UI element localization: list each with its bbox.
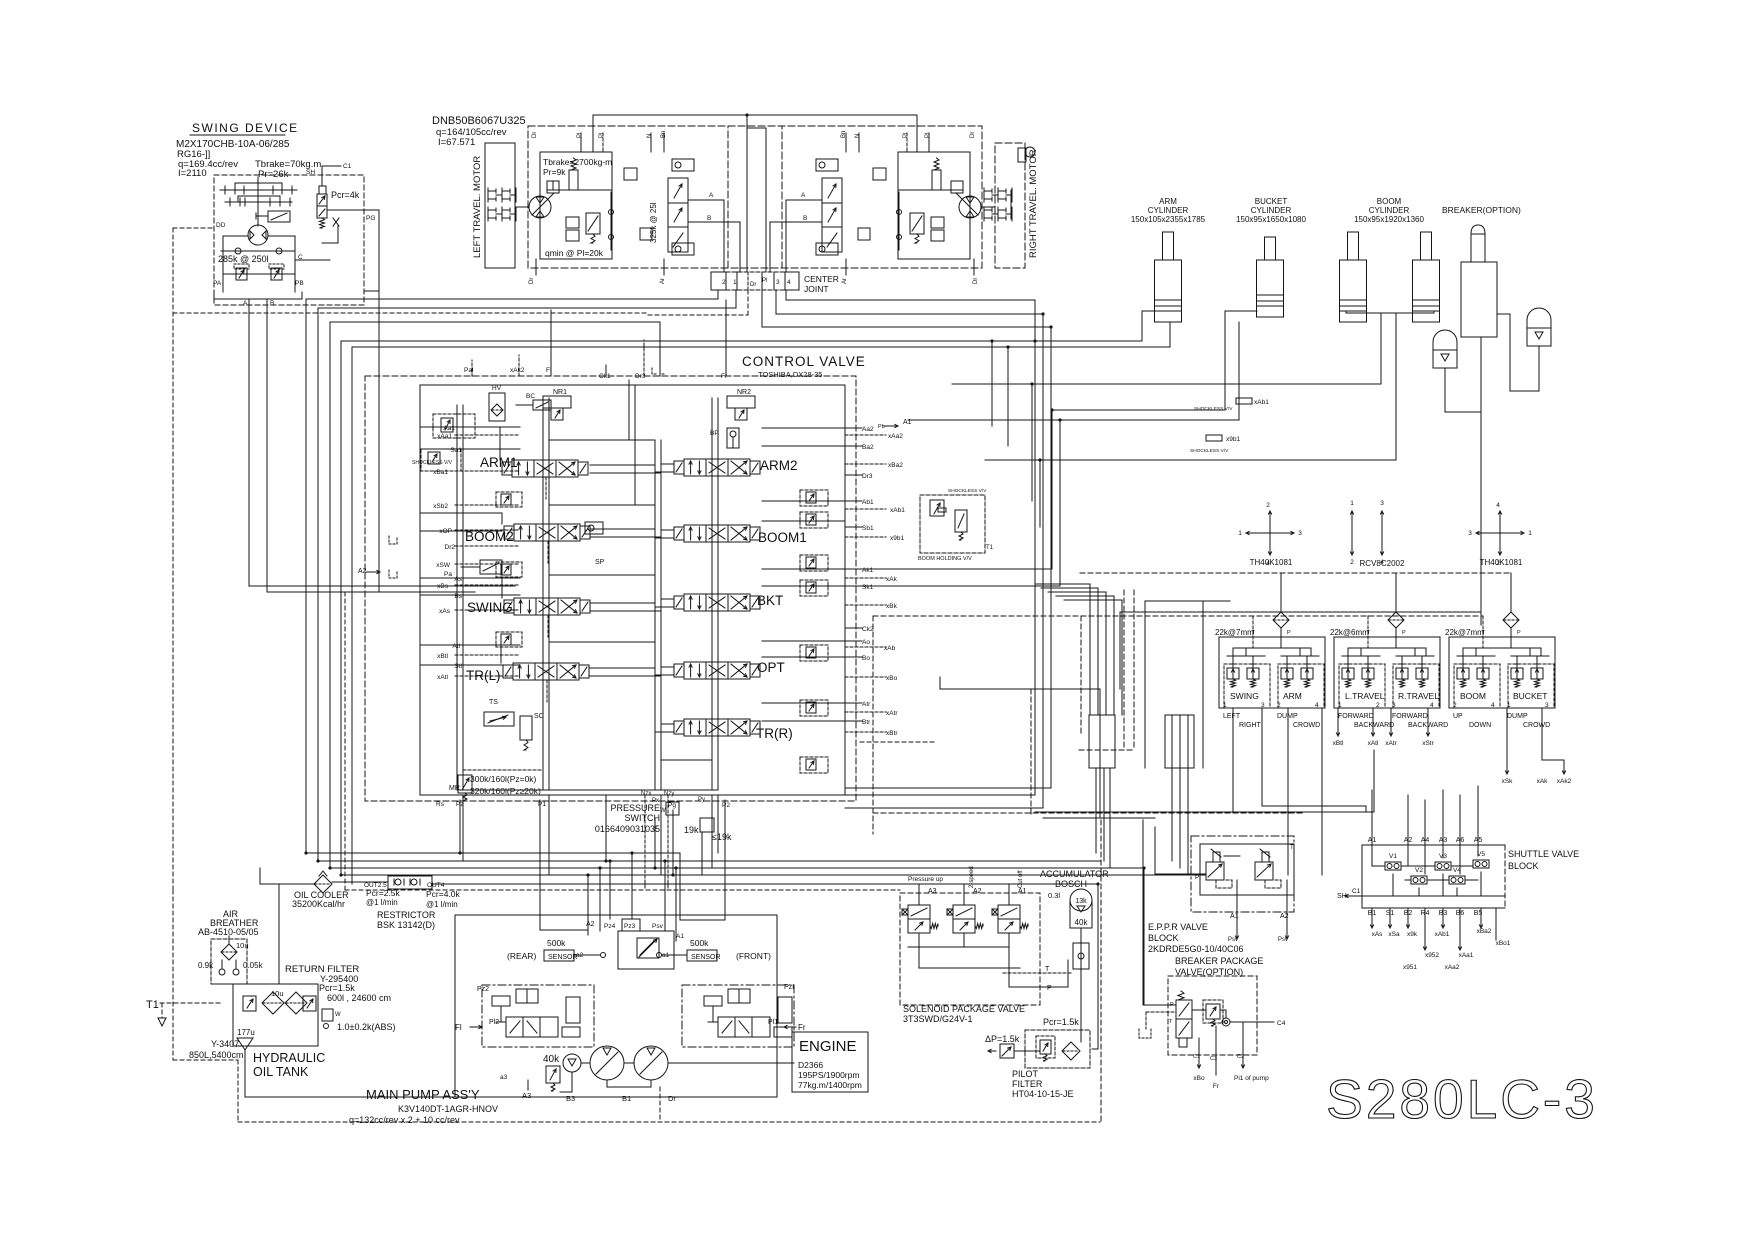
svg-text:BREAKER PACKAGE: BREAKER PACKAGE bbox=[1175, 956, 1263, 966]
rcv filter bbox=[1388, 612, 1404, 628]
breaker outputs bbox=[1198, 1038, 1200, 1055]
svg-text:Ck1: Ck1 bbox=[599, 373, 611, 380]
svg-text:B: B bbox=[270, 300, 274, 307]
svg-text:4: 4 bbox=[1315, 702, 1319, 709]
rcv P riser bbox=[1510, 573, 1512, 612]
relief bottom right bbox=[858, 228, 870, 240]
center joint lines down-right bbox=[761, 290, 763, 327]
arm cylinder bbox=[1163, 232, 1174, 260]
svg-text:CROWD: CROWD bbox=[1523, 722, 1550, 729]
svg-text:xAtl: xAtl bbox=[437, 674, 448, 681]
load check valves left column bbox=[496, 492, 522, 507]
breaker side port line bbox=[1509, 314, 1511, 391]
svg-text:OUT4: OUT4 bbox=[427, 882, 445, 889]
svg-text:77kg.m/1400rpm: 77kg.m/1400rpm bbox=[798, 1080, 862, 1090]
pilot dashed line to control valve bbox=[173, 312, 648, 314]
cooler inlet line bbox=[260, 883, 314, 885]
svg-text:DUMP: DUMP bbox=[1507, 713, 1528, 720]
restrictor output line bbox=[332, 881, 388, 883]
Pz3 box bbox=[622, 919, 640, 931]
svg-text:TH40K1081: TH40K1081 bbox=[1250, 558, 1293, 567]
cv left dashed pilot stubs bbox=[455, 434, 520, 436]
svg-text:(REAR): (REAR) bbox=[507, 951, 536, 961]
pilot filter relief bbox=[1040, 1040, 1051, 1054]
arm cylinder long work-line pair bbox=[341, 340, 1142, 342]
breaker pkg supply vertical bbox=[1143, 868, 1145, 1005]
EPPR block enclosure bbox=[1191, 836, 1294, 912]
svg-text:xSW: xSW bbox=[436, 562, 451, 569]
svg-text:Cut off: Cut off bbox=[1018, 870, 1024, 888]
rcv dashed sub-boxes bbox=[1339, 664, 1385, 708]
svg-text:xAa2: xAa2 bbox=[1445, 964, 1460, 971]
svg-text:LEFT: LEFT bbox=[1223, 713, 1241, 720]
svg-text:Ar: Ar bbox=[660, 278, 666, 284]
svg-text:150x95x1650x1080: 150x95x1650x1080 bbox=[1236, 215, 1306, 224]
svg-text:xAs: xAs bbox=[439, 608, 451, 615]
svg-text:P: P bbox=[1402, 630, 1406, 636]
svg-text:Ba2: Ba2 bbox=[862, 444, 874, 451]
HV valve bbox=[489, 393, 505, 421]
svg-text:Sb1: Sb1 bbox=[862, 525, 874, 532]
motor relief small bbox=[951, 181, 963, 193]
swing brake valve Pcr=4k bbox=[317, 194, 327, 206]
svg-text:P: P bbox=[1517, 630, 1521, 636]
svg-text:B3: B3 bbox=[566, 1094, 575, 1103]
EPPR internal links bbox=[1224, 855, 1240, 857]
misc right dashes bbox=[860, 741, 935, 743]
motor A-B work lines bbox=[688, 199, 724, 201]
svg-text:Atr: Atr bbox=[862, 701, 871, 708]
svg-text:Pz2: Pz2 bbox=[477, 986, 489, 993]
cv right dashed pilot stubs bbox=[845, 434, 886, 436]
svg-text:qmin @ Pl=20k: qmin @ Pl=20k bbox=[545, 248, 604, 258]
svg-text:325k @ 25l: 325k @ 25l bbox=[649, 202, 658, 243]
pilot relief small box upper-left bbox=[433, 414, 475, 438]
arm work-line drops from cv bbox=[991, 341, 993, 426]
svg-text:Bo: Bo bbox=[862, 655, 870, 662]
counterbalance main stack bbox=[668, 178, 688, 252]
svg-text:xSk: xSk bbox=[1502, 778, 1514, 785]
swing motor work loop bbox=[222, 236, 224, 286]
svg-text:ΔP=1.5k: ΔP=1.5k bbox=[985, 1034, 1020, 1044]
svg-text:Atl: Atl bbox=[452, 643, 460, 650]
svg-text:150x105x2355x1785: 150x105x2355x1785 bbox=[1131, 215, 1206, 224]
svg-text:xBa2: xBa2 bbox=[888, 462, 903, 469]
svg-text:OIL TANK: OIL TANK bbox=[253, 1065, 309, 1079]
svg-text:4: 4 bbox=[787, 279, 791, 286]
svg-text:T1: T1 bbox=[986, 545, 994, 551]
check pair bbox=[931, 217, 944, 228]
cv inner bottom lines bbox=[463, 769, 543, 771]
svg-text:BLOCK: BLOCK bbox=[1508, 861, 1539, 871]
svg-text:SWING DEVICE: SWING DEVICE bbox=[192, 121, 299, 135]
air breather filter bbox=[221, 944, 237, 960]
accumulator 2 line bbox=[1538, 346, 1540, 391]
accumulator line down bbox=[1080, 928, 1082, 1030]
svg-text:13k: 13k bbox=[1075, 898, 1087, 905]
svg-text:10u: 10u bbox=[271, 989, 284, 998]
shuttle valve block body bbox=[1362, 845, 1505, 908]
breaker symbol bbox=[1461, 262, 1497, 337]
counterbalance spool small bbox=[586, 213, 600, 234]
solenoid T dashed bbox=[1003, 972, 1073, 974]
svg-text:BP: BP bbox=[710, 430, 719, 437]
svg-text:285k @ 250l: 285k @ 250l bbox=[218, 254, 269, 264]
svg-text:Sk1: Sk1 bbox=[862, 584, 874, 591]
svg-text:a3: a3 bbox=[500, 1074, 508, 1081]
arm cylinder cap-side line bbox=[1169, 322, 1171, 347]
svg-text:SHOCKLESS V/V: SHOCKLESS V/V bbox=[1190, 448, 1229, 454]
svg-text:1: 1 bbox=[1507, 702, 1511, 709]
svg-text:RIGHT: RIGHT bbox=[1239, 722, 1262, 729]
tank internal link lines bbox=[211, 983, 318, 985]
pump regulator internals rear bbox=[492, 996, 510, 1006]
svg-text:N: N bbox=[855, 134, 861, 138]
swing relief valve left bbox=[236, 268, 247, 280]
svg-text:P: P bbox=[1287, 630, 1291, 636]
swing A-B work lines down to control valve bbox=[248, 299, 250, 586]
svg-text:TOSHIBA,DX28-35: TOSHIBA,DX28-35 bbox=[758, 370, 822, 379]
svg-text:xAk: xAk bbox=[886, 576, 898, 583]
svg-text:Px: Px bbox=[652, 798, 659, 804]
svg-text:A2: A2 bbox=[973, 888, 982, 895]
accumulator capsule 2 bbox=[1527, 308, 1551, 346]
svg-text:C4: C4 bbox=[1277, 1020, 1286, 1027]
svg-text:3T3SWD/G24V-1: 3T3SWD/G24V-1 bbox=[903, 1014, 973, 1024]
svg-text:T1: T1 bbox=[146, 999, 159, 1011]
joystick pattern TH40K1081 left bbox=[1269, 511, 1271, 533]
bucket cylinder cap-side line bbox=[1238, 322, 1240, 420]
accumulator T junction block bbox=[1073, 943, 1089, 969]
rcv reducing valves bbox=[1342, 668, 1354, 679]
left vertical wire bundle bbox=[305, 299, 307, 853]
motor relief small bbox=[547, 181, 559, 193]
svg-text:BACKWARD: BACKWARD bbox=[1354, 722, 1394, 729]
svg-text:Stl: Stl bbox=[454, 663, 462, 670]
svg-text:BC: BC bbox=[526, 393, 535, 400]
svg-text:0166409031035: 0166409031035 bbox=[595, 824, 660, 834]
pilot filter enclosure bbox=[1025, 1030, 1090, 1068]
svg-text:2: 2 bbox=[722, 279, 726, 286]
svg-text:xOP: xOP bbox=[439, 528, 452, 535]
svg-text:CYLINDER: CYLINDER bbox=[1148, 206, 1189, 215]
svg-text:CENTER: CENTER bbox=[804, 274, 839, 284]
rcv rocker levers bbox=[1227, 655, 1265, 657]
front pump bbox=[590, 1046, 624, 1080]
svg-text:ARM: ARM bbox=[1283, 691, 1302, 701]
svg-text:V1: V1 bbox=[1389, 853, 1397, 860]
svg-text:x9b1: x9b1 bbox=[890, 535, 904, 542]
svg-text:MAIN PUMP ASS'Y: MAIN PUMP ASS'Y bbox=[366, 1087, 480, 1102]
return filter pressure switch bbox=[322, 1009, 333, 1021]
bucket cylinder bbox=[1265, 237, 1276, 260]
cv bottom port drops bbox=[459, 800, 461, 853]
gear shaft link bbox=[515, 206, 529, 208]
boom cylinders tie line bbox=[1346, 312, 1434, 314]
svg-text:BOOM HOLDING V/V: BOOM HOLDING V/V bbox=[918, 556, 972, 562]
pilot return dashed vertical bbox=[1100, 820, 1102, 1122]
svg-text:S280LC-3: S280LC-3 bbox=[1326, 1068, 1598, 1130]
svg-text:2: 2 bbox=[1453, 702, 1457, 709]
pilot supply to filter bbox=[1097, 884, 1099, 1049]
svg-text:xAk2: xAk2 bbox=[510, 367, 525, 374]
pump regulator internals front bbox=[704, 996, 722, 1006]
svg-text:xAk2: xAk2 bbox=[1557, 778, 1572, 785]
svg-text:1: 1 bbox=[1350, 500, 1354, 507]
left travel gearbox bbox=[487, 188, 489, 202]
junction box right bbox=[1165, 715, 1194, 768]
boom rod-side line bbox=[1395, 313, 1397, 460]
PG line bbox=[327, 209, 379, 211]
svg-text:Dr: Dr bbox=[750, 282, 756, 288]
svg-text:xBs: xBs bbox=[437, 583, 449, 590]
swing brake pilot loop bbox=[337, 226, 339, 243]
svg-text:Btr: Btr bbox=[862, 719, 871, 726]
svg-text:SC: SC bbox=[534, 713, 544, 720]
svg-text:35200Kcal/hr: 35200Kcal/hr bbox=[292, 899, 345, 909]
svg-text:xBo1: xBo1 bbox=[1496, 940, 1511, 947]
return filter elements bbox=[262, 992, 284, 1014]
svg-text:Aa1: Aa1 bbox=[443, 425, 455, 432]
svg-text:xAtr: xAtr bbox=[1385, 740, 1397, 747]
trunk drops from center joint lines bbox=[1034, 300, 1036, 420]
svg-text:LEFT TRAVEL. MOTOR: LEFT TRAVEL. MOTOR bbox=[472, 156, 483, 258]
right travel gearbox bbox=[983, 188, 985, 202]
svg-text:4: 4 bbox=[1496, 502, 1500, 509]
svg-text:I=2110: I=2110 bbox=[178, 168, 207, 179]
pump center pilot valve box bbox=[618, 931, 674, 969]
svg-text:3: 3 bbox=[1468, 530, 1472, 537]
svg-text:L.TRAVEL: L.TRAVEL bbox=[1345, 691, 1385, 701]
pump top pilot lines bbox=[587, 875, 589, 935]
svg-text:Pcr=4k: Pcr=4k bbox=[331, 190, 360, 200]
control valve inner body bbox=[420, 385, 845, 795]
svg-text:3: 3 bbox=[776, 279, 780, 286]
svg-text:PRESSURE: PRESSURE bbox=[610, 803, 660, 813]
svg-text:Sa1: Sa1 bbox=[450, 447, 462, 454]
rear pump bbox=[634, 1046, 668, 1080]
pump regulator front dash-dot box bbox=[682, 985, 794, 1047]
svg-text:C1: C1 bbox=[343, 163, 352, 170]
svg-text:Aa2: Aa2 bbox=[862, 426, 874, 433]
svg-text:4: 4 bbox=[1430, 702, 1434, 709]
svg-text:xSa: xSa bbox=[1388, 931, 1400, 938]
svg-text:Dr2: Dr2 bbox=[445, 544, 456, 551]
return filter bypass reliefs bbox=[243, 996, 256, 1011]
svg-text:150x95x1920x1360: 150x95x1920x1360 bbox=[1354, 215, 1424, 224]
svg-text:A: A bbox=[243, 300, 248, 307]
svg-text:DUMP: DUMP bbox=[1277, 713, 1298, 720]
rcv dashed sub-boxes bbox=[1454, 664, 1500, 708]
bucket work-line connections bbox=[845, 568, 1052, 570]
svg-text:2: 2 bbox=[1376, 702, 1380, 709]
svg-text:Bs: Bs bbox=[454, 593, 462, 600]
svg-text:xBk: xBk bbox=[886, 603, 898, 610]
bottom dashed pilot return bbox=[345, 889, 900, 891]
accumulator symbol bbox=[1070, 889, 1092, 911]
svg-text:22k@7mm: 22k@7mm bbox=[1445, 628, 1484, 637]
travel motor P supply lines bbox=[593, 114, 917, 116]
svg-text:N: N bbox=[647, 134, 653, 138]
left bundle upper link to cv top bbox=[330, 321, 660, 323]
svg-text:2: 2 bbox=[1350, 559, 1354, 566]
svg-text:xAa1: xAa1 bbox=[437, 433, 452, 440]
svg-text:CROWD: CROWD bbox=[1293, 722, 1320, 729]
spool-to-rail links bbox=[590, 464, 655, 466]
boom holding valve bbox=[920, 495, 985, 553]
left travel motor dashed enclosure bbox=[528, 126, 782, 268]
svg-text:Pl: Pl bbox=[925, 133, 931, 138]
svg-text:xBtl: xBtl bbox=[1333, 740, 1344, 747]
svg-text:≤19k: ≤19k bbox=[712, 832, 732, 842]
shockless valve left bbox=[421, 449, 461, 471]
svg-text:B1: B1 bbox=[622, 1094, 631, 1103]
svg-text:320k/160l(Pz≥20k): 320k/160l(Pz≥20k) bbox=[470, 786, 541, 796]
svg-text:Fr: Fr bbox=[1213, 1083, 1220, 1090]
svg-text:FILTER: FILTER bbox=[1012, 1079, 1043, 1089]
svg-text:xAtl: xAtl bbox=[1368, 740, 1379, 747]
svg-text:BLOCK: BLOCK bbox=[1148, 933, 1179, 943]
shuttle input feed verticals bbox=[1371, 790, 1373, 845]
svg-text:1: 1 bbox=[1338, 702, 1342, 709]
gear shaft link bbox=[981, 206, 995, 208]
svg-text:ENGINE: ENGINE bbox=[799, 1038, 857, 1055]
svg-text:Nzx: Nzx bbox=[641, 791, 651, 797]
svg-text:E.P.P.R VALVE: E.P.P.R VALVE bbox=[1148, 922, 1208, 932]
breaker check valve bbox=[1222, 1018, 1230, 1026]
svg-text:Psv: Psv bbox=[652, 923, 664, 930]
counterbalance spool small bbox=[910, 213, 924, 234]
check pair bbox=[566, 217, 579, 228]
internal links bbox=[899, 189, 963, 191]
swing relief valve right bbox=[271, 268, 282, 280]
rcv reducing valves bbox=[1227, 668, 1239, 679]
svg-text:DOWN: DOWN bbox=[1469, 722, 1491, 729]
svg-text:3: 3 bbox=[1545, 702, 1549, 709]
relief top right bbox=[624, 168, 637, 180]
load check valves right column bbox=[800, 490, 828, 506]
swing brake release solenoid valve bbox=[268, 211, 290, 222]
svg-text:A: A bbox=[709, 192, 714, 199]
svg-text:NR1: NR1 bbox=[553, 389, 567, 396]
boom cap-side line bbox=[1380, 313, 1382, 384]
xSW selector valve bbox=[480, 560, 502, 574]
svg-text:xAb1: xAb1 bbox=[890, 507, 905, 514]
breaker C4 line bbox=[1230, 1021, 1274, 1023]
swing gear train bbox=[220, 189, 297, 191]
svg-text:xBtr: xBtr bbox=[886, 730, 898, 737]
svg-text:Dr3: Dr3 bbox=[862, 473, 873, 480]
svg-text:Nzy: Nzy bbox=[664, 791, 674, 797]
svg-text:3: 3 bbox=[1392, 702, 1396, 709]
svg-text:1: 1 bbox=[733, 279, 737, 286]
svg-text:xSb2: xSb2 bbox=[433, 503, 448, 510]
pressure switch Py bbox=[700, 818, 714, 832]
svg-text:2: 2 bbox=[1277, 702, 1281, 709]
svg-text:Py: Py bbox=[698, 797, 705, 803]
solenoid package enclosure bbox=[900, 893, 1040, 1005]
svg-text:RIGHT TRAVEL. MOTOR: RIGHT TRAVEL. MOTOR bbox=[1028, 149, 1039, 258]
rcv dashed sub-boxes bbox=[1224, 664, 1270, 708]
right travel works box bbox=[898, 152, 970, 259]
svg-text:I=67.571: I=67.571 bbox=[438, 137, 475, 148]
svg-text:850L,5400cm: 850L,5400cm bbox=[189, 1050, 244, 1060]
swing motor bbox=[248, 225, 268, 245]
svg-text:22k@7mm: 22k@7mm bbox=[1215, 628, 1254, 637]
brake release valve bbox=[569, 170, 578, 190]
svg-text:Fr: Fr bbox=[721, 373, 728, 380]
solenoid valve bbox=[998, 905, 1020, 919]
svg-text:FORWARD: FORWARD bbox=[1338, 713, 1374, 720]
svg-text:22k@6mm: 22k@6mm bbox=[1330, 628, 1369, 637]
svg-text:@1 l/min: @1 l/min bbox=[366, 898, 398, 907]
accumulator capsule 1 bbox=[1433, 330, 1457, 368]
svg-text:Ao: Ao bbox=[862, 639, 870, 646]
orifice check top bbox=[816, 159, 838, 171]
svg-text:JOINT: JOINT bbox=[804, 284, 829, 294]
swing C port line bbox=[295, 259, 330, 261]
svg-text:Dr: Dr bbox=[973, 278, 979, 284]
svg-text:SHOCKLESS V/V: SHOCKLESS V/V bbox=[412, 460, 453, 466]
svg-text:BSK 13142(D): BSK 13142(D) bbox=[377, 920, 435, 930]
svg-text:BREAKER(OPTION): BREAKER(OPTION) bbox=[1442, 205, 1521, 215]
breaker package enclosure bbox=[1168, 976, 1257, 1055]
svg-text:xAk: xAk bbox=[1537, 778, 1549, 785]
rcv filter bbox=[1503, 612, 1519, 628]
svg-text:BOOM: BOOM bbox=[1377, 197, 1402, 206]
junction dots bbox=[458, 851, 461, 854]
svg-text:A1: A1 bbox=[903, 419, 912, 426]
svg-text:195PS/1900rpm: 195PS/1900rpm bbox=[798, 1070, 859, 1080]
svg-text:As: As bbox=[454, 576, 462, 583]
pump drain lines bbox=[527, 1080, 529, 1090]
svg-text:TR(R): TR(R) bbox=[756, 726, 793, 741]
right motor port risers bbox=[928, 133, 930, 152]
air breather enclosure bbox=[211, 939, 247, 984]
svg-text:SHUTTLE VALVE: SHUTTLE VALVE bbox=[1508, 849, 1579, 859]
rcv riser staircase bbox=[1089, 584, 1091, 715]
pump feed risers bbox=[540, 929, 588, 931]
rcv T riser bbox=[1252, 616, 1254, 648]
svg-text:Rs: Rs bbox=[436, 801, 445, 808]
svg-text:19k: 19k bbox=[684, 825, 699, 835]
svg-text:TH40K1081: TH40K1081 bbox=[1480, 558, 1523, 567]
svg-text:3: 3 bbox=[1298, 530, 1302, 537]
svg-text:@1 l/min: @1 l/min bbox=[426, 900, 458, 909]
svg-text:B: B bbox=[707, 215, 711, 222]
rcv swing-arm outputs down bbox=[1232, 708, 1234, 812]
shuttle bottom outputs bbox=[1371, 908, 1373, 922]
svg-text:(FRONT): (FRONT) bbox=[736, 951, 771, 961]
svg-text:q=132cc/rev x 2 + 10 cc/rev: q=132cc/rev x 2 + 10 cc/rev bbox=[349, 1115, 460, 1125]
svg-text:AB-4510-05/05: AB-4510-05/05 bbox=[198, 927, 259, 937]
A2 arrow bbox=[366, 571, 380, 573]
cv right solid pilot stubs bbox=[845, 427, 862, 429]
svg-text:Dr: Dr bbox=[970, 132, 976, 138]
svg-text:1: 1 bbox=[1238, 530, 1242, 537]
svg-text:A2: A2 bbox=[358, 568, 367, 575]
motor A-B work lines bbox=[786, 199, 822, 201]
svg-text:2KDRDE5G0-10/40C06: 2KDRDE5G0-10/40C06 bbox=[1148, 944, 1244, 954]
rcv filter bbox=[1273, 612, 1289, 628]
counterbalance main stack bbox=[822, 178, 842, 252]
swing device enclosure bbox=[214, 175, 364, 305]
rcv P riser bbox=[1395, 573, 1397, 612]
svg-text:BUCKET: BUCKET bbox=[1513, 691, 1547, 701]
center joint bbox=[711, 272, 726, 290]
svg-text:K3V140DT-1AGR-HNOV: K3V140DT-1AGR-HNOV bbox=[398, 1104, 498, 1114]
svg-text:Pz3: Pz3 bbox=[624, 923, 636, 930]
